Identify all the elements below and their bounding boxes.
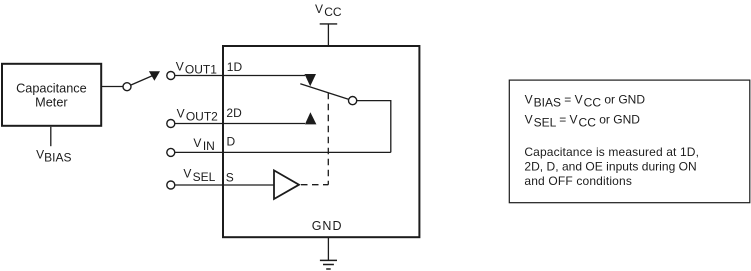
- svg-text:Meter: Meter: [35, 95, 68, 109]
- note box: [509, 80, 750, 203]
- svg-text:2D: 2D: [226, 106, 242, 120]
- probe arm wire: [131, 76, 152, 85]
- svg-text:S: S: [226, 170, 234, 184]
- dashed control wire vertical: [327, 93, 329, 185]
- buffer U2: [274, 170, 299, 199]
- svg-text:VCC: VCC: [315, 2, 342, 19]
- VCC stem wire: [327, 24, 329, 46]
- probe arrowhead: [149, 71, 160, 80]
- svg-text:VBIAS = VCC or GND: VBIAS = VCC or GND: [525, 93, 646, 110]
- svg-text:VOUT2: VOUT2: [177, 107, 219, 124]
- contact arrow 2D: [305, 112, 317, 124]
- svg-text:VOUT1: VOUT1: [176, 60, 218, 77]
- node VIN terminal circle: [167, 148, 175, 156]
- wire VIN to D internal: [175, 151, 391, 153]
- svg-text:1D: 1D: [227, 60, 243, 74]
- capacitance meter box: [2, 64, 101, 126]
- svg-text:and OFF conditions: and OFF conditions: [524, 174, 632, 188]
- switch pole circle: [349, 97, 357, 105]
- node VOUT2 terminal circle: [167, 120, 175, 128]
- svg-text:VBIAS: VBIAS: [36, 147, 71, 164]
- dashed control wire horizontal: [301, 184, 328, 186]
- svg-text:VIN: VIN: [193, 136, 214, 153]
- svg-text:VSEL: VSEL: [183, 167, 215, 185]
- IC box U1: [223, 46, 419, 237]
- svg-text:2D, D, and OE inputs during ON: 2D, D, and OE inputs during ON: [524, 160, 696, 174]
- svg-text:VSEL = VCC or GND: VSEL = VCC or GND: [525, 112, 641, 129]
- svg-text:D: D: [227, 135, 236, 149]
- node VSEL terminal circle: [167, 181, 175, 189]
- wire VOUT1 to 1D pin: [175, 75, 223, 77]
- wire pole return: [357, 101, 391, 153]
- ground symbol: [320, 259, 337, 261]
- switch arm: [300, 84, 349, 100]
- VCC power bar: [320, 23, 338, 25]
- wire VOUT2 to 2D pin: [175, 123, 223, 125]
- GND stem wire: [327, 237, 329, 260]
- wire 1D internal: [223, 75, 305, 77]
- svg-text:Capacitance is measured at 1D,: Capacitance is measured at 1D,: [524, 145, 699, 159]
- svg-text:Capacitance: Capacitance: [16, 82, 87, 96]
- VBIAS stem wire: [50, 127, 52, 146]
- wire 2D internal: [223, 123, 305, 125]
- wire VSEL to buffer: [175, 184, 274, 186]
- contact arrow 1D: [305, 74, 317, 86]
- svg-text:GND: GND: [312, 219, 343, 233]
- node VOUT1 terminal circle: [167, 72, 175, 80]
- probe terminal circle: [123, 83, 131, 91]
- wire meter output: [102, 86, 123, 88]
